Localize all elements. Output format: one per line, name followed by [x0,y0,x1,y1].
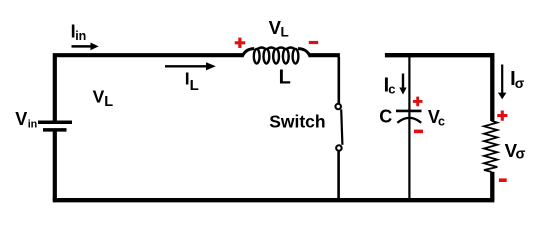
polarity - (capacitor, red) [414,130,423,134]
svg-text:c: c [438,115,445,129]
svg-text:L: L [104,94,113,110]
svg-text:σ: σ [515,75,525,91]
arrow IL [165,62,216,70]
wire: bottom return wire [53,198,495,202]
svg-text:in: in [75,29,86,43]
wire: top wire inductor to switch node [309,53,340,57]
switch blade [341,109,342,144]
svg-text:V: V [93,86,105,106]
capacitor C top plate [396,110,422,113]
battery Vin [38,122,72,130]
svg-text:c: c [388,81,395,96]
svg-text:L: L [281,25,289,40]
wire: left vertical upper (Vin top lead) + top wire to inductor [55,55,244,121]
wire: left vertical lower (Vin bottom lead) [53,131,57,200]
capacitor branch upper lead [408,57,410,110]
polarity + (inductor left, red) [235,38,246,48]
svg-text:V: V [15,109,27,129]
polarity - (resistor, red) [499,178,507,182]
svg-text:C: C [379,107,392,127]
inductor L coil [242,48,310,64]
polarity + (capacitor, red) [413,97,423,107]
arrow Ic [399,74,406,95]
arrow Isigma [498,65,507,100]
resistor R load zigzag [484,121,497,172]
svg-text:σ: σ [516,147,526,163]
arrow Iin [72,43,99,51]
capacitor branch lower lead [408,112,410,198]
polarity + (resistor, red) [497,111,507,121]
wire: right vertical lower (resistor bottom lead) [490,172,494,200]
switch top contact circle [335,104,341,110]
switch bottom contact circle [336,145,342,151]
svg-text:L: L [190,77,199,94]
svg-text:Switch: Switch [269,112,325,132]
polarity - (inductor right, red) [309,41,318,44]
svg-text:in: in [28,118,38,130]
switch lower lead [337,151,340,200]
switch upper lead [337,57,340,103]
svg-text:L: L [279,67,291,89]
capacitor C curved plate [397,118,421,123]
wire: top-right wire and right vertical upper [385,55,492,121]
